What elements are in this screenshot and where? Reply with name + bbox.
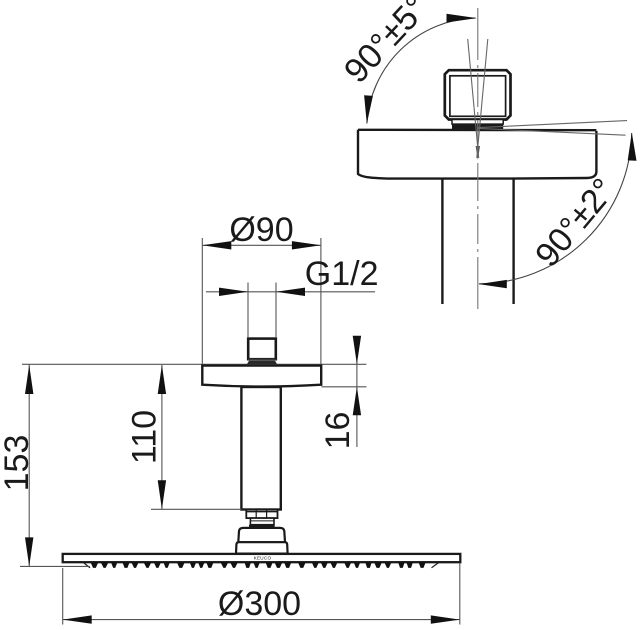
detail ceiling plate (side view) [358,130,596,179]
detail connector base dark band [452,124,503,129]
dimension Ø90 line [202,244,321,246]
dimension Ø300 line [63,619,460,621]
arc 90±5 [367,18,476,124]
escutcheon bell lower tier [236,542,288,553]
detail view centerline [477,8,479,311]
arc 90±2 [479,133,632,284]
svg-text:110: 110 [126,410,164,464]
svg-text:153: 153 [0,435,36,492]
dimension 16 extension (lower) [322,386,367,388]
shower head disc (front view) [63,554,461,562]
detail surface tolerance line lower [478,128,626,135]
detail connector square inner lines [450,76,506,117]
detail connector neck [452,120,503,125]
dimension Ø300 extension lines [62,568,64,625]
dimension G1/2 line [206,291,375,293]
dimension Ø90 extension lines [201,238,203,364]
spray face end bevels [84,563,91,568]
dimension G1/2 extension lines [247,283,249,339]
arm lower hex nut [246,510,277,519]
wire ceiling reference line (153/16 extension) [22,363,366,365]
dimension 110 line [161,365,163,509]
swivel collar [250,518,274,525]
dimension 153 line [28,365,30,567]
detail plate top edge [358,129,596,132]
swivel dark ring [249,525,275,528]
svg-text:16: 16 [319,412,357,450]
dimension 110 bottom extension [151,508,241,510]
detail connector square outer [445,70,511,119]
svg-text:Ø300: Ø300 [218,585,301,623]
ceiling plate (front view) [202,366,321,387]
detail tolerance axis line right [477,39,488,158]
svg-text:G1/2: G1/2 [305,255,379,293]
escutcheon bell upper tier [238,528,285,542]
svg-text:KEUCO: KEUCO [254,556,272,561]
tolerance pivot spike [476,146,480,160]
dimension 153 bottom extension [20,565,90,567]
dimension 16 line [356,336,358,447]
G1/2 connector square (front view) [248,339,276,360]
spray face nozzle pattern [91,562,426,568]
detail supply pipe [441,179,443,304]
detail tolerance axis line left [468,39,479,158]
detail surface tolerance line upper [478,121,627,128]
shower arm (front view) [241,387,280,510]
svg-text:Ø90: Ø90 [229,211,293,249]
